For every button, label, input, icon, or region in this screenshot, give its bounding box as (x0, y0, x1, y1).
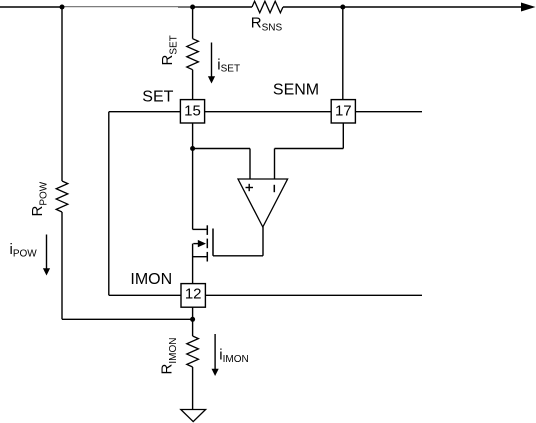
op-amp U1 (238, 179, 288, 227)
wire R_POW branch lower (61, 212, 63, 319)
wire bottom horizontal from R_POW to IMON node (62, 318, 193, 320)
wire pin15 right to pin17 (205, 111, 332, 113)
wire pin17 bottom to op-amp minus input (342, 123, 344, 149)
transistor Q1 gate line (212, 229, 214, 256)
current arrow i_SET (211, 43, 213, 78)
wire source/body down to pin 12 (192, 244, 194, 284)
pin box 17 (331, 100, 355, 123)
svg-text:iSET: iSET (217, 56, 240, 74)
wire top rail short black run before R_SET tap (178, 6, 193, 8)
node junction dot at R_SET tap (190, 5, 195, 10)
wire R_IMON to ground (192, 367, 194, 410)
wire R_SET to pin 15 (192, 70, 194, 100)
svg-text:17: 17 (335, 102, 352, 119)
wire drain from SET node (192, 149, 194, 230)
wire pin15 left to vertical bus (109, 111, 181, 113)
op-amp minus sign (rotated, vertical bar) (273, 185, 275, 192)
wire pin12 bottom (192, 307, 194, 319)
svg-text:SET: SET (142, 89, 173, 106)
wire pin12 right stub (205, 294, 422, 296)
svg-text:RSET: RSET (159, 35, 180, 65)
node junction dot at SENM tap (340, 5, 345, 10)
pin box 15 (180, 100, 204, 123)
svg-text:12: 12 (185, 286, 202, 303)
resistor R_IMON (187, 336, 199, 367)
wire R_SET branch upper (192, 7, 194, 39)
wire to R_IMON (192, 319, 194, 336)
ground (181, 410, 206, 422)
wire op-amp output to gate (262, 227, 264, 256)
node junction dot at R_POW tap (60, 5, 65, 10)
transistor Q1 body arrow (193, 243, 199, 245)
resistor R_SNS (252, 1, 283, 13)
wire top rail gray segment (62, 6, 178, 8)
wire top rail to R_SNS (193, 6, 252, 8)
svg-text:RPOW: RPOW (29, 181, 50, 216)
wire top rail left segment (0, 6, 62, 8)
pin box 12 (181, 284, 205, 308)
svg-text:iPOW: iPOW (10, 241, 38, 259)
wire left vertical bus (108, 112, 110, 296)
wire pin12 left to vertical bus (109, 294, 181, 296)
node junction dot below pin 15 (190, 146, 195, 151)
current arrow i_POW (46, 235, 48, 270)
svg-text:15: 15 (184, 102, 201, 119)
transistor Q1 source wire (193, 256, 207, 258)
svg-text:iIMON: iIMON (219, 347, 248, 365)
wire pin15 bottom (192, 123, 194, 149)
wire pin17 right stub (355, 111, 422, 113)
svg-text:SENM: SENM (273, 81, 319, 98)
current arrow i_IMON (214, 334, 216, 370)
wire top rail right segment (283, 6, 523, 8)
svg-text:RSNS: RSNS (251, 15, 283, 34)
arrowhead top rail output (521, 3, 536, 12)
svg-text:IMON: IMON (130, 271, 172, 288)
wire to op-amp plus input (193, 148, 250, 150)
resistor R_POW (56, 181, 68, 212)
op-amp plus sign (246, 187, 254, 189)
resistor R_SET (187, 39, 199, 70)
wire R_POW branch upper (61, 7, 63, 181)
transistor Q1 channel bars (206, 225, 208, 235)
wire pin17 top to rail (342, 7, 344, 100)
svg-text:RIMON: RIMON (158, 338, 179, 375)
node junction dot below pin 12 (190, 317, 195, 322)
